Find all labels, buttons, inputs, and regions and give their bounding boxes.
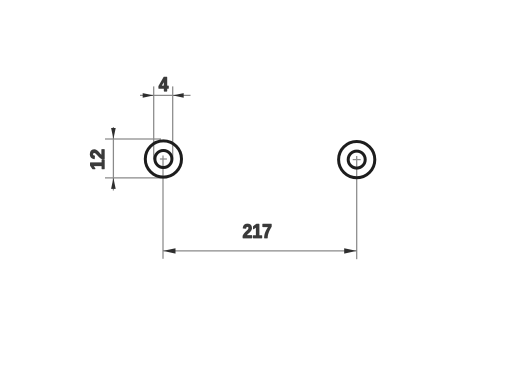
arrowhead bottom of dimension 12 — [111, 178, 116, 189]
dimension label 4 — [159, 77, 168, 91]
extension line left of dimension 217 (centre line of left hole) — [162, 156, 164, 259]
arrowhead right of dimension 217 — [344, 248, 357, 253]
left hole outer circle — [145, 141, 181, 177]
centre mark of right hole — [353, 159, 361, 161]
extension line left of dimension 4 — [153, 86, 155, 159]
arrowhead top of dimension 12 — [111, 128, 116, 139]
dimension line 217 — [163, 250, 357, 252]
extension line right of dimension 217 (centre line of right hole) — [356, 156, 358, 259]
dimension line 4 — [140, 94, 191, 96]
arrowhead right of dimension 4 — [173, 93, 184, 98]
arrowhead left of dimension 217 — [163, 248, 176, 253]
right hole inner circle — [348, 151, 365, 168]
extension line right of dimension 4 — [172, 86, 174, 159]
arrowhead left of dimension 4 — [143, 93, 154, 98]
dimension line 12 — [112, 127, 114, 191]
extension line bottom of dimension 12 — [105, 177, 161, 179]
centre mark of left hole — [160, 158, 167, 160]
dimension label 12 (rotated) — [90, 150, 104, 169]
left hole inner circle — [155, 151, 172, 168]
extension line top of dimension 12 — [105, 138, 161, 140]
dimension label 217 — [243, 224, 271, 238]
right hole outer circle — [339, 142, 375, 178]
